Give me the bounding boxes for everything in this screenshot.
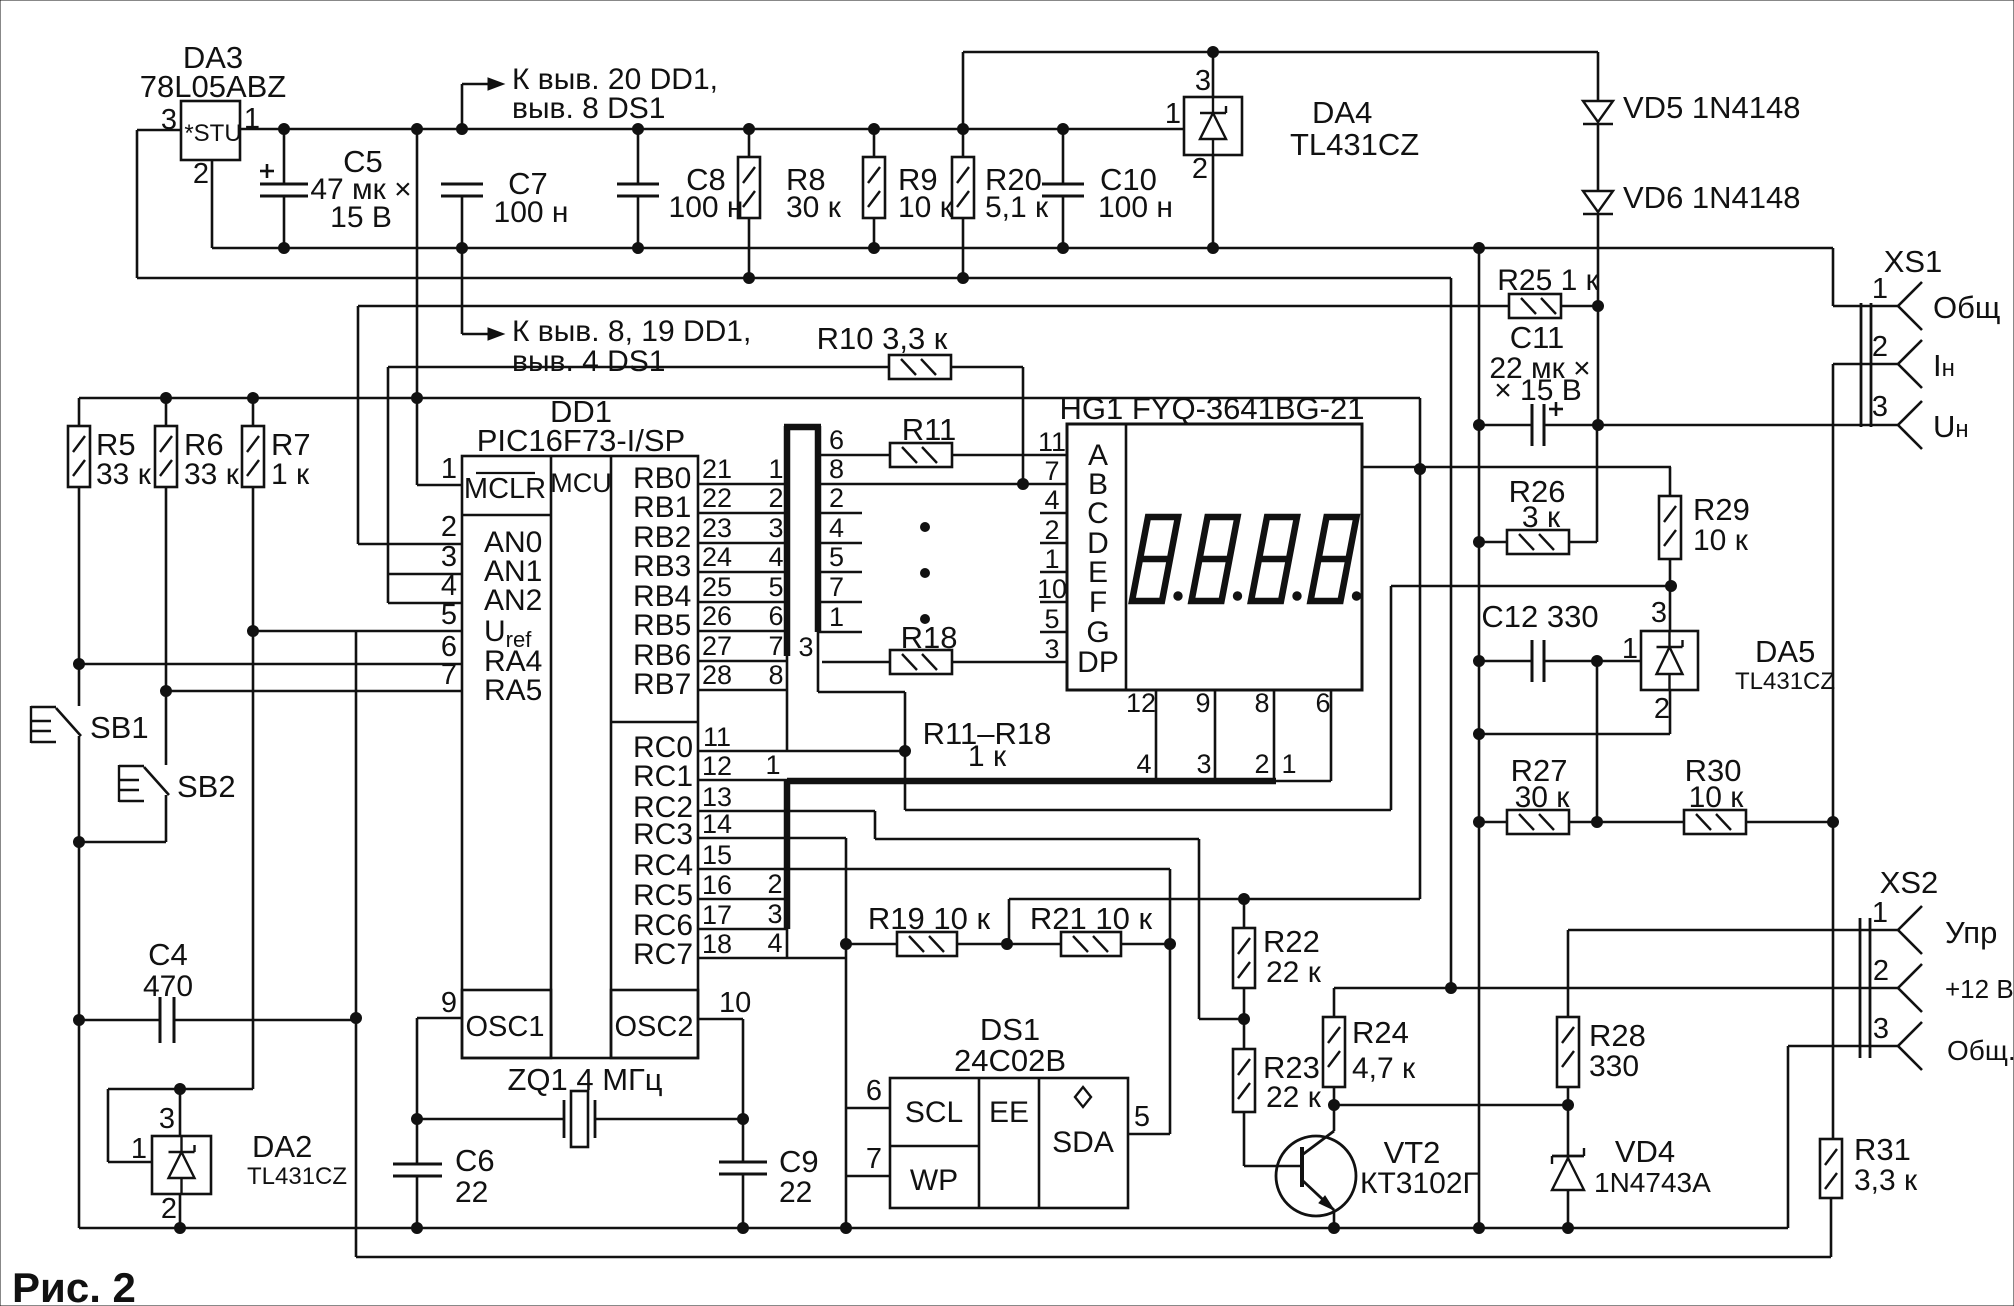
left rail of measure node down to AN0	[357, 306, 360, 544]
svg-text:C12 330: C12 330	[1481, 599, 1598, 634]
svg-text:3: 3	[1873, 1013, 1889, 1045]
svg-text:Общ.: Общ.	[1947, 1035, 2014, 1066]
display bottom pin 12	[1155, 690, 1158, 781]
capacitor C10 100n	[1042, 183, 1084, 186]
transistor VT2 KT3102G	[1276, 1136, 1356, 1216]
svg-text:1: 1	[131, 1133, 147, 1165]
svg-text:3: 3	[1872, 391, 1888, 423]
wire DA5 ref row	[1391, 585, 1671, 588]
svg-text:24: 24	[702, 542, 732, 572]
svg-text:33 к: 33 к	[96, 458, 152, 491]
wire DA3 pin3 to +12V bus	[137, 129, 181, 132]
svg-text:MCU: MCU	[550, 468, 612, 498]
svg-text:RB5: RB5	[633, 609, 691, 642]
svg-text:2: 2	[1254, 749, 1269, 779]
svg-text:4: 4	[829, 513, 844, 543]
svg-text:78L05ABZ: 78L05ABZ	[140, 69, 287, 104]
svg-text:VD6 1N4148: VD6 1N4148	[1623, 180, 1801, 215]
svg-text:КТ3102Г: КТ3102Г	[1360, 1167, 1479, 1200]
svg-text:100 н: 100 н	[1098, 191, 1173, 224]
svg-text:R7: R7	[271, 427, 311, 462]
svg-text:TL431CZ: TL431CZ	[1290, 127, 1419, 162]
RB4 stub pin 25	[698, 601, 787, 604]
wire In sense rail down	[1832, 364, 1835, 1139]
display bottom pin 8	[1273, 690, 1276, 781]
svg-text:2: 2	[1192, 153, 1208, 185]
svg-text:DP: DP	[1077, 646, 1119, 679]
svg-text:6: 6	[866, 1075, 882, 1107]
display bottom pin 6	[1330, 690, 1333, 781]
svg-text:11: 11	[703, 722, 731, 752]
svg-text:4: 4	[768, 542, 783, 572]
wire DA5 pin2 return	[1669, 690, 1672, 734]
svg-text:1: 1	[1165, 98, 1181, 130]
wire I2C left rail	[845, 838, 848, 1228]
svg-text:27: 27	[702, 631, 732, 661]
svg-text:R6: R6	[184, 427, 224, 462]
svg-text:23: 23	[702, 513, 732, 543]
svg-text:2: 2	[1654, 693, 1670, 725]
resistor R25 1k	[358, 305, 1509, 308]
RB2 stub pin 23	[698, 542, 787, 545]
voltage regulator DA3 box	[181, 101, 240, 160]
wire RC1 bold select line	[698, 779, 787, 782]
svg-text:2: 2	[767, 869, 782, 899]
svg-text:9: 9	[441, 987, 457, 1019]
svg-text:C9: C9	[779, 1144, 819, 1179]
svg-text:6: 6	[1315, 688, 1330, 718]
svg-text:R25 1 к: R25 1 к	[1497, 264, 1599, 297]
svg-text:5: 5	[1134, 1101, 1150, 1133]
svg-text:2: 2	[1872, 331, 1888, 363]
RB3 stub pin 24	[698, 571, 787, 574]
svg-text:C11: C11	[1510, 320, 1565, 355]
svg-text:RC7: RC7	[633, 938, 693, 971]
seven segment digits 8.8.8.8.	[1132, 517, 1178, 601]
+12V feed rail vertical	[1450, 278, 1453, 988]
pushbutton SB2	[165, 691, 168, 765]
svg-text:C4: C4	[148, 937, 188, 972]
wire MCLR +5V	[416, 130, 419, 485]
arrow to pin 8 19 DD1 / pin 4 DS1	[461, 248, 464, 334]
svg-text:DA5: DA5	[1755, 634, 1815, 669]
svg-text:Упр: Упр	[1945, 915, 1997, 950]
wire RC7 row	[698, 957, 846, 960]
svg-text:3,3 к: 3,3 к	[1854, 1164, 1918, 1197]
svg-text:1: 1	[768, 454, 783, 484]
svg-text:1: 1	[1622, 633, 1638, 665]
svg-text:*STU: *STU	[184, 120, 241, 147]
resistor R24 4.7k	[1333, 988, 1336, 1017]
return bus D bottom	[356, 1256, 1831, 1259]
RB0 stub pin 21	[698, 483, 787, 486]
svg-text:12: 12	[702, 751, 732, 781]
svg-text:1: 1	[1872, 897, 1888, 929]
svg-text:PIC16F73-I/SP: PIC16F73-I/SP	[477, 423, 685, 458]
svg-text:3: 3	[1651, 597, 1667, 629]
arrow to pin 20 DD1 / pin 8 DS1	[461, 84, 464, 129]
svg-text:VD5 1N4148: VD5 1N4148	[1623, 90, 1801, 125]
OSC2 pin 10 wire	[698, 1018, 743, 1021]
wire R25 node down to Un line	[1597, 306, 1600, 425]
svg-text:DS1: DS1	[980, 1012, 1040, 1047]
svg-text:5,1 к: 5,1 к	[985, 191, 1049, 224]
segment bundle right leg	[815, 426, 822, 632]
OSC1 cell	[462, 990, 551, 1058]
display bottom pin 9	[1214, 690, 1217, 781]
resistor R7 1k	[242, 426, 264, 487]
svg-text:SCL: SCL	[905, 1096, 963, 1129]
wire RC0 row	[698, 750, 905, 753]
junction dots	[279, 124, 290, 135]
OSC1 pin 9 wire	[417, 1017, 462, 1020]
svg-text:15 В: 15 В	[330, 201, 392, 234]
wire RC4 row to DS1 pin5	[698, 868, 1170, 871]
RB5 stub pin 26	[698, 630, 787, 633]
RB1 stub pin 22	[698, 512, 787, 515]
resistor R23 22k	[1243, 1019, 1246, 1049]
svg-text:RB3: RB3	[633, 550, 691, 583]
svg-text:2: 2	[1044, 515, 1059, 545]
XS1 pin 2 In	[1833, 363, 1898, 366]
wire AN1	[387, 367, 390, 603]
wire Obsh return	[1787, 1046, 1790, 1228]
svg-text:G: G	[1086, 616, 1109, 649]
svg-text:4: 4	[1136, 749, 1151, 779]
RB/RC divider	[611, 721, 698, 724]
svg-text:3: 3	[1196, 749, 1211, 779]
svg-text:25: 25	[702, 572, 732, 602]
XS1 pin 3 Un	[1898, 401, 1922, 425]
svg-text:R24: R24	[1352, 1015, 1409, 1050]
svg-text:XS2: XS2	[1880, 865, 1939, 900]
svg-text:9: 9	[1195, 688, 1210, 718]
DS1 pin 6 SCL wire	[846, 1107, 890, 1110]
wire from W1 rail corner down	[1419, 398, 1422, 899]
svg-text:R22: R22	[1263, 924, 1320, 959]
svg-text:10 к: 10 к	[898, 191, 954, 224]
RB7 stub pin 28	[698, 689, 787, 692]
svg-text:30 к: 30 к	[786, 191, 842, 224]
svg-text:3: 3	[768, 513, 783, 543]
svg-text:22: 22	[702, 483, 732, 513]
svg-text:4: 4	[441, 570, 457, 602]
resistor R8 30k	[738, 157, 760, 218]
wire R21 right to DS1 pin 5	[1169, 869, 1172, 1134]
svg-text:14: 14	[702, 809, 732, 839]
XS2 pin 2 +12V	[1334, 987, 1898, 990]
wire bundle to DA5 ref exit	[818, 691, 905, 694]
svg-text:22: 22	[455, 1176, 488, 1209]
svg-text:10: 10	[719, 987, 751, 1019]
svg-text:7: 7	[829, 572, 844, 602]
svg-text:F: F	[1089, 586, 1107, 619]
svg-text:3: 3	[441, 541, 457, 573]
shunt regulator DA4 TL431CZ	[1184, 97, 1242, 155]
svg-text:22 к: 22 к	[1266, 956, 1322, 989]
DS1 SDA diamond	[1075, 1087, 1091, 1107]
svg-text:2: 2	[441, 511, 457, 543]
RB6 stub pin 27	[698, 660, 787, 663]
svg-text:R29: R29	[1693, 492, 1750, 527]
+12V bus B horizontal	[137, 277, 1451, 280]
capacitor C7 100n	[441, 183, 483, 186]
svg-text:24C02B: 24C02B	[954, 1043, 1066, 1078]
svg-text:4: 4	[1044, 485, 1059, 515]
svg-text:2: 2	[161, 1193, 177, 1225]
svg-text:1 к: 1 к	[271, 458, 310, 491]
segment rows C-G stubs	[818, 512, 862, 515]
resistor R6 33k	[155, 426, 177, 487]
svg-text:К выв. 8, 19 DD1,: К выв. 8, 19 DD1,	[512, 315, 751, 348]
svg-text:1: 1	[441, 453, 457, 485]
svg-text:VD4: VD4	[1615, 1134, 1675, 1169]
shunt regulator DA5 TL431CZ	[1641, 631, 1698, 690]
svg-text:5: 5	[441, 599, 457, 631]
svg-text:RB1: RB1	[633, 491, 691, 524]
svg-text:RB7: RB7	[633, 668, 691, 701]
svg-text:16: 16	[702, 870, 732, 900]
DD1 box	[462, 456, 698, 1058]
svg-text:3: 3	[1195, 65, 1211, 97]
wire RC6 entry	[698, 928, 787, 931]
wire AN2	[388, 602, 462, 605]
svg-text:7: 7	[866, 1143, 882, 1175]
svg-text:1: 1	[1044, 544, 1059, 574]
svg-text:1: 1	[1872, 273, 1888, 305]
wire RC5 entry	[698, 898, 787, 901]
svg-text:OSC1: OSC1	[466, 1011, 545, 1043]
wire RA5	[166, 690, 462, 693]
XS2 pin 3 Obsh	[1788, 1045, 1898, 1048]
svg-text:E: E	[1088, 556, 1108, 589]
svg-text:26: 26	[702, 601, 732, 631]
wire Uref	[253, 630, 462, 633]
DS1 pin 7 WP wire	[846, 1175, 890, 1178]
svg-text:MCLR: MCLR	[464, 473, 546, 505]
svg-text:TL431CZ: TL431CZ	[247, 1163, 347, 1190]
MCLR cell	[462, 514, 551, 517]
svg-text:R5: R5	[96, 427, 136, 462]
svg-text:C6: C6	[455, 1143, 495, 1178]
wire RC2 zigzag to base node	[698, 810, 875, 813]
measure divider rail	[355, 631, 358, 1257]
svg-text:1: 1	[1281, 749, 1296, 779]
svg-text:RC4: RC4	[633, 849, 693, 882]
wire display ref node to R29	[1362, 466, 1671, 469]
wire DA3 pin1 output rail	[240, 128, 1184, 131]
svg-text:28: 28	[702, 660, 732, 690]
svg-text:33 к: 33 к	[184, 458, 240, 491]
svg-text:SB2: SB2	[177, 769, 236, 804]
GND bus C bottom	[79, 1227, 1788, 1230]
svg-text:AN2: AN2	[484, 584, 542, 617]
svg-text:Рис. 2: Рис. 2	[12, 1264, 136, 1306]
connector XS2 body	[1859, 918, 1862, 1058]
segment wire bundle left leg	[784, 426, 791, 656]
svg-text:5: 5	[829, 542, 844, 572]
svg-text:SDA: SDA	[1052, 1126, 1114, 1159]
svg-text:TL431CZ: TL431CZ	[1735, 668, 1835, 695]
segment bundle top	[784, 424, 821, 431]
svg-text:выв. 4 DS1: выв. 4 DS1	[512, 345, 666, 378]
svg-text:11: 11	[1038, 427, 1066, 457]
svg-text:1 к: 1 к	[968, 740, 1007, 773]
wire DA3 pin2 down to GND bus	[211, 160, 214, 248]
svg-text:WP: WP	[910, 1164, 958, 1197]
svg-text:EE: EE	[989, 1096, 1029, 1129]
wire R19-R21 node to R22 row	[1009, 898, 1420, 901]
svg-text:1: 1	[829, 602, 844, 632]
svg-text:2: 2	[768, 483, 783, 513]
svg-text:15: 15	[702, 840, 732, 870]
svg-text:8: 8	[768, 660, 783, 690]
connector XS1 body	[1860, 303, 1863, 427]
svg-text:выв. 8 DS1: выв. 8 DS1	[512, 92, 666, 125]
wire R7 node down to DA2	[252, 631, 255, 1089]
svg-text:XS1: XS1	[1884, 244, 1943, 279]
pushbutton SB1	[78, 664, 81, 706]
svg-text:SB1: SB1	[90, 710, 149, 745]
ellipsis dots for R12-R17	[921, 523, 930, 532]
svg-text:R31: R31	[1854, 1132, 1911, 1167]
svg-text:2: 2	[829, 483, 844, 513]
OSC2 cell	[611, 990, 698, 1058]
wire RC3 row	[698, 837, 846, 840]
svg-text:10: 10	[1037, 574, 1067, 604]
svg-text:3: 3	[798, 632, 813, 662]
svg-text:7: 7	[1044, 456, 1059, 486]
wire RA4	[79, 663, 462, 666]
capacitor C5 47uF electrolytic	[260, 183, 308, 186]
resistor R22 22k	[1243, 899, 1246, 928]
resistor R20 5.1k	[952, 157, 974, 218]
XS1 pin 1 Obsh	[1832, 248, 1835, 306]
resistor R9 10k	[863, 157, 885, 218]
svg-text:100 н: 100 н	[494, 196, 569, 229]
svg-text:7: 7	[768, 631, 783, 661]
ground reference rail vertical	[1478, 248, 1481, 1228]
svg-text:8: 8	[1254, 688, 1269, 718]
svg-text:21: 21	[702, 454, 732, 484]
svg-text:10 к: 10 к	[1693, 524, 1749, 557]
capacitor C9 22	[719, 1161, 767, 1164]
segment row B wire	[818, 483, 1067, 486]
svg-text:4: 4	[767, 928, 782, 958]
svg-text:1: 1	[765, 750, 780, 780]
svg-text:HG1 FYQ-3641BG-21: HG1 FYQ-3641BG-21	[1060, 391, 1365, 426]
svg-text:OSC2: OSC2	[615, 1011, 694, 1043]
svg-text:3: 3	[767, 899, 782, 929]
resistor R5 33k	[68, 426, 90, 487]
svg-text:2: 2	[193, 158, 209, 190]
svg-text:22 к: 22 к	[1266, 1081, 1322, 1114]
svg-text:R28: R28	[1589, 1018, 1646, 1053]
capacitor C6 22	[393, 1163, 442, 1166]
svg-text:RC3: RC3	[633, 818, 693, 851]
wire base node row	[1334, 1104, 1568, 1107]
diode VD5 1N4148	[1597, 52, 1600, 101]
svg-text:3: 3	[159, 1103, 175, 1135]
svg-text:DA4: DA4	[1312, 95, 1372, 130]
svg-text:5: 5	[1044, 604, 1059, 634]
zener diode VD4 1N4743A	[1567, 1105, 1570, 1158]
svg-text:RC5: RC5	[633, 879, 693, 912]
svg-text:13: 13	[702, 782, 732, 812]
svg-text:7: 7	[441, 659, 457, 691]
resistor R28 330	[1567, 930, 1570, 1017]
svg-text:12: 12	[1126, 688, 1156, 718]
display HG1 box	[1067, 424, 1362, 690]
diode VD6 1N4148	[1597, 124, 1600, 191]
svg-text:RC1: RC1	[633, 760, 693, 793]
svg-text:17: 17	[702, 900, 732, 930]
svg-text:6: 6	[829, 425, 844, 455]
wire C12 node down to R27 row	[1596, 661, 1599, 822]
svg-text:× 15 В: × 15 В	[1494, 374, 1582, 407]
GND bus A horizontal	[212, 247, 1833, 250]
resistor R31 3.3k	[1820, 1139, 1842, 1198]
svg-text:R10 3,3 к: R10 3,3 к	[817, 321, 948, 356]
svg-text:VT2: VT2	[1384, 1135, 1441, 1170]
svg-text:+12 В: +12 В	[1945, 974, 2014, 1004]
shunt regulator DA2 TL431CZ	[180, 1088, 253, 1091]
wire OSC1 node down	[416, 1018, 419, 1164]
svg-text:100 н: 100 н	[669, 191, 744, 224]
svg-text:1N4743A: 1N4743A	[1594, 1167, 1711, 1198]
svg-text:2: 2	[1873, 955, 1889, 987]
capacitor C8 100n	[617, 183, 659, 186]
svg-text:22: 22	[779, 1176, 812, 1209]
XS2 pin 1 Upr	[1568, 929, 1898, 932]
DS1 pin 5 SDA wire	[1128, 1133, 1170, 1136]
wire VD6 to R25 node	[1597, 214, 1600, 306]
svg-text:DA2: DA2	[252, 1129, 312, 1164]
svg-text:Общ: Общ	[1933, 290, 2000, 325]
svg-text:3: 3	[1044, 634, 1059, 664]
wire AN0	[358, 543, 462, 546]
svg-text:RA5: RA5	[484, 674, 542, 707]
svg-text:R23: R23	[1263, 1050, 1320, 1085]
svg-text:6: 6	[768, 601, 783, 631]
top rail to VD5 chain	[963, 51, 1598, 54]
resistor R29 10k	[1659, 496, 1681, 559]
svg-text:C: C	[1087, 497, 1109, 530]
DS1 box	[890, 1078, 1128, 1208]
svg-text:18: 18	[702, 929, 732, 959]
rail W1 +5V horizontal	[79, 397, 1420, 400]
svg-text:330: 330	[1589, 1050, 1639, 1083]
svg-text:8: 8	[829, 454, 844, 484]
svg-text:4,7 к: 4,7 к	[1352, 1052, 1416, 1085]
svg-text:5: 5	[768, 572, 783, 602]
svg-text:470: 470	[143, 970, 193, 1003]
